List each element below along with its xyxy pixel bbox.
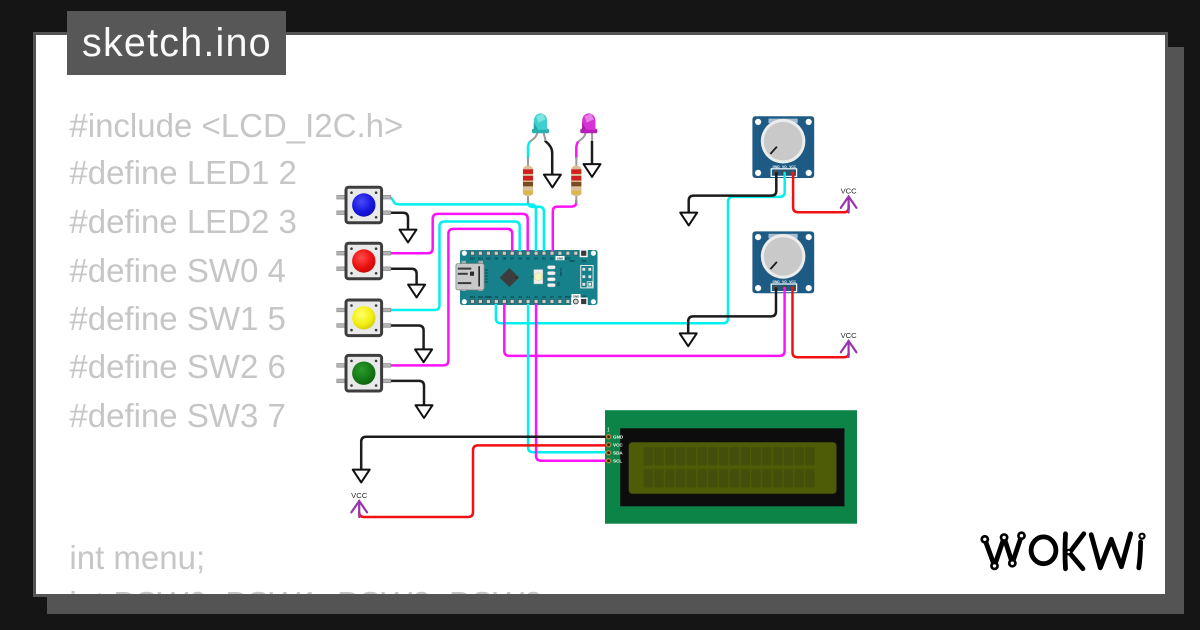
wire resistor R2 to nano D3 (cyan)	[528, 201, 544, 253]
nano top GND label box	[556, 256, 565, 260]
usb connector	[456, 261, 484, 291]
smd capacitors	[547, 266, 555, 287]
svg-text:A5: A5	[534, 295, 538, 299]
svg-text:GND: GND	[557, 256, 563, 260]
nano bottom GND pad with ring	[571, 297, 580, 306]
ground (blue button)	[400, 230, 417, 243]
ground (yellow button)	[415, 349, 432, 362]
wire pot1 VO to nano A0 (cyan)	[496, 173, 785, 323]
svg-text:D13: D13	[470, 295, 476, 299]
wire red button SW1 to ground (black)	[388, 269, 417, 285]
arduino nano U1	[456, 250, 598, 305]
svg-text:L: L	[531, 276, 535, 278]
wire yellow button SW2 to nano D6 (cyan)	[388, 222, 520, 311]
svg-text:A2: A2	[510, 295, 514, 299]
svg-text:RST: RST	[565, 295, 571, 299]
wire pot1 GND to ground (black)	[689, 173, 777, 213]
nano bottom GND label box	[572, 294, 581, 298]
svg-text:1: 1	[607, 428, 610, 434]
svg-text:5V: 5V	[558, 295, 562, 299]
potentiometer VR1	[752, 116, 814, 178]
svg-text:VIN: VIN	[582, 294, 587, 298]
lcd1602 i2c display LCD1	[605, 410, 857, 524]
wire LCD GND to ground (black)	[361, 437, 608, 470]
svg-text:A7: A7	[550, 295, 554, 299]
lcd pins GND VCC SDA SCL	[607, 435, 611, 463]
wire magenta LED cathode to ground (black)	[591, 141, 594, 164]
svg-text:D11: D11	[478, 256, 484, 260]
svg-text:3V3: 3V3	[478, 295, 484, 299]
wire nano A5 to LCD SCL (magenta)	[536, 302, 609, 461]
wokwi logo	[980, 531, 1145, 570]
wire magenta LED anode to resistor R1 (magenta)	[576, 142, 578, 159]
svg-text:SCL: SCL	[613, 459, 622, 464]
svg-text:A0: A0	[494, 295, 498, 299]
svg-text:D9: D9	[494, 256, 498, 260]
wire cyan LED cathode to ground (black)	[545, 141, 552, 175]
ground (magenta LED)	[584, 164, 601, 177]
ground (cyan LED)	[544, 175, 561, 188]
wire nano A4 to LCD SDA (cyan)	[528, 302, 609, 452]
svg-text:A1: A1	[502, 295, 506, 299]
wire cyan LED anode to resistor R2 (cyan)	[528, 142, 530, 159]
lcd pin labels	[613, 435, 624, 464]
svg-text:SDA: SDA	[613, 451, 623, 456]
ground (red button)	[408, 285, 425, 298]
nano corner holes	[462, 251, 596, 305]
svg-text:TX RX: TX RX	[559, 268, 563, 276]
svg-text:D12: D12	[470, 256, 476, 260]
vcc symbol (LCD)	[351, 491, 368, 517]
resistor R1 (220 ohm, for magenta LED)	[571, 157, 581, 204]
svg-text:D3: D3	[542, 256, 546, 260]
svg-text:TX1: TX1	[581, 259, 587, 263]
svg-text:D2: D2	[550, 256, 554, 260]
pushbutton SW3 (green)	[337, 355, 391, 391]
wire VCC symbol to LCD VCC (red)	[359, 445, 608, 517]
svg-text:ON: ON	[557, 282, 561, 286]
svg-text:D8: D8	[502, 256, 506, 260]
svg-text:D7: D7	[510, 256, 514, 260]
svg-text:D10: D10	[486, 256, 492, 260]
magenta LED legs	[578, 132, 592, 142]
wire green button SW3 to nano D7 (magenta)	[388, 229, 512, 366]
lcd character cells	[644, 447, 815, 487]
cyan LED bulb	[532, 113, 549, 133]
svg-text:VCC: VCC	[841, 187, 858, 196]
wire pot2 VCC to VCC symbol (red)	[793, 288, 849, 357]
vcc symbol (pot1)	[841, 187, 858, 213]
svg-text:GND: GND	[573, 294, 579, 298]
svg-text:GND: GND	[613, 435, 624, 440]
silkscreen tiny texts	[531, 259, 588, 286]
wire yellow button SW2 to ground (black)	[388, 326, 424, 350]
pushbutton SW2 (yellow)	[337, 300, 391, 336]
pushbutton SW1 (red)	[337, 243, 391, 279]
svg-text:VCC: VCC	[613, 443, 623, 448]
nano bottom pin labels	[470, 294, 587, 299]
microcontroller chip (diamond)	[500, 268, 520, 287]
wire pot2 VO to nano A1 (magenta)	[504, 288, 784, 356]
cyan LED legs	[530, 132, 546, 142]
pot2 knob	[761, 234, 806, 279]
svg-text:AREF: AREF	[484, 295, 492, 299]
potentiometer VR2	[752, 231, 814, 293]
svg-text:A3: A3	[518, 295, 522, 299]
nano bottom pin pads D13..RST	[471, 300, 570, 304]
wire blue button SW0 to nano D4 (cyan)	[388, 197, 536, 253]
icsp header	[581, 266, 593, 288]
magenta LED bulb	[580, 113, 597, 133]
svg-text:D4: D4	[534, 256, 538, 260]
wire pot2 GND to ground (black)	[688, 288, 776, 334]
svg-text:A6: A6	[542, 295, 546, 299]
ground (pot1)	[680, 213, 697, 226]
pushbutton SW0 (blue)	[337, 187, 391, 223]
pot1 pin labels GND VO VCC	[773, 165, 797, 169]
crystal pins marks	[485, 270, 488, 283]
power LED U1	[534, 270, 543, 284]
nano top pin labels	[470, 256, 571, 260]
wire blue button SW0 to ground (black)	[388, 213, 408, 230]
vcc symbol (pot2)	[841, 331, 858, 357]
ground (LCD)	[353, 470, 370, 483]
svg-text:D6: D6	[518, 256, 522, 260]
nano top pin pads D12..TX1	[471, 251, 578, 255]
wire pot1 VCC to VCC symbol (red)	[793, 173, 849, 212]
svg-text:D5: D5	[526, 256, 530, 260]
ground (green button)	[416, 405, 433, 418]
nano top pin TX1 square pad	[580, 250, 587, 257]
pot1 knob	[761, 119, 806, 164]
nano bottom VIN square pad	[580, 298, 587, 305]
svg-text:RST: RST	[565, 256, 571, 260]
wire green button SW3 to ground (black)	[388, 381, 424, 406]
svg-text:VCC: VCC	[351, 491, 368, 500]
ground (pot2)	[680, 333, 697, 346]
wire red button SW1 to nano D5 (magenta)	[388, 214, 528, 253]
svg-text:A4: A4	[526, 295, 530, 299]
svg-text:VCC: VCC	[841, 331, 858, 340]
pot2 pin labels GND VO VCC	[773, 280, 797, 284]
wire resistor R1 to nano D2 (magenta)	[553, 201, 577, 253]
resistor R2 (220 ohm, for cyan LED)	[523, 157, 533, 204]
